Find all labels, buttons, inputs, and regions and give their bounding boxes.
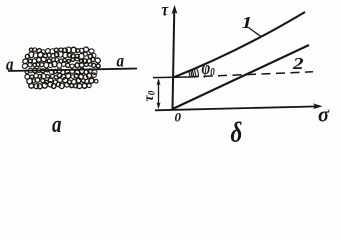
svg-text:a: a <box>6 54 14 74</box>
svg-text:τ: τ <box>162 0 169 20</box>
svg-text:δ: δ <box>231 116 243 147</box>
svg-text:a: a <box>117 50 125 70</box>
svg-text:0: 0 <box>175 110 182 125</box>
svg-text:σ: σ <box>318 102 330 127</box>
svg-text:а: а <box>52 110 61 138</box>
svg-text:2: 2 <box>292 55 304 74</box>
